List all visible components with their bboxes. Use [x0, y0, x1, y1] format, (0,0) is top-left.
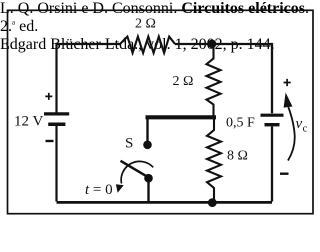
- border frame: [8, 10, 314, 213]
- wire switch lower lead: [147, 178, 149, 202]
- node B junction dot bottom: [208, 198, 217, 207]
- svg-text:12 V: 12 V: [14, 114, 43, 130]
- resistor R1 2ohm (top horizontal): [120, 37, 175, 53]
- battery V1 12V: [44, 44, 120, 202]
- resistor R3 8ohm: [207, 119, 221, 202]
- svg-text:S: S: [125, 135, 133, 151]
- wire top right to capacitor: [175, 44, 272, 113]
- battery plus sign: [45, 93, 52, 100]
- switch S top contact: [143, 141, 152, 150]
- svg-text:2 Ω: 2 Ω: [135, 16, 156, 31]
- resistor R2 2ohm (vertical): [207, 44, 221, 116]
- vc plus sign: [284, 79, 291, 86]
- wire battery bottom lead: [55, 126, 57, 202]
- wire switch upper lead: [146, 116, 148, 141]
- battery plate short (-): [48, 123, 65, 127]
- battery minus sign: [46, 140, 54, 142]
- vc arrow head: [284, 93, 293, 108]
- switch S bottom contact: [144, 174, 153, 183]
- node A junction dot top: [208, 40, 217, 49]
- capacitor C1 bottom plate: [265, 123, 280, 126]
- battery plate long (+): [44, 112, 69, 115]
- wire capacitor bottom lead: [271, 127, 273, 202]
- switch closing arrow arc: [121, 161, 153, 183]
- citation text: [0, 0, 318, 54]
- switch arrow head: [116, 184, 124, 193]
- vc minus sign: [280, 172, 289, 174]
- wire battery top lead and top wire to resistor: [57, 44, 121, 113]
- svg-text:c: c: [303, 123, 308, 135]
- svg-text:2 Ω: 2 Ω: [173, 74, 194, 89]
- capacitor C1 0,5F top plate: [261, 114, 284, 117]
- switch S blade: [121, 161, 151, 179]
- wire thick middle (switch to resistor node): [146, 115, 217, 119]
- svg-text:0,5 F: 0,5 F: [226, 115, 255, 130]
- svg-text:v: v: [296, 116, 303, 132]
- vc arrow arc: [288, 107, 295, 161]
- svg-text:t = 0: t = 0: [85, 182, 113, 198]
- svg-text:8 Ω: 8 Ω: [227, 149, 248, 164]
- wire bottom: [57, 201, 273, 204]
